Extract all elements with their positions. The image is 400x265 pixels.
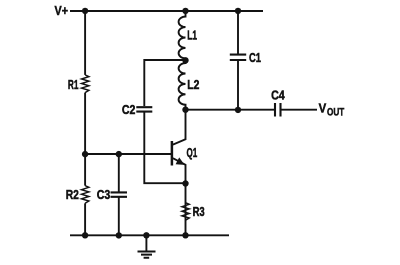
- wire tap (L1/L2 junction to C2): [144, 60, 185, 106]
- wire C4 to VOUT: [281, 109, 318, 111]
- node emitter junction: [182, 180, 188, 186]
- capacitor C3 bottom lead: [118, 198, 120, 236]
- node C1 bottom junction: [235, 107, 241, 113]
- resistor R1: [82, 75, 89, 93]
- capacitor C4 plates: [275, 103, 281, 117]
- node C3 bottom junction: [116, 232, 122, 238]
- capacitor C3 top lead: [118, 154, 120, 192]
- svg-text:C1: C1: [249, 51, 261, 65]
- ground symbol: [138, 252, 156, 258]
- svg-text:Q1: Q1: [187, 146, 198, 160]
- transistor Q1 collector: [173, 110, 186, 145]
- svg-text:R2: R2: [66, 188, 79, 202]
- node L1 top junction: [182, 8, 188, 14]
- svg-text:C2: C2: [122, 103, 135, 117]
- transistor Q1 emitter: [173, 158, 186, 235]
- node C1 top junction: [235, 8, 241, 14]
- node ground junction: [143, 232, 149, 238]
- capacitor C2 plates: [136, 107, 152, 111]
- wire left vertical upper: [84, 11, 86, 75]
- resistor R2: [82, 186, 89, 204]
- wire output node (L2 bottom to C4): [186, 109, 276, 111]
- capacitor C1 bottom lead: [237, 61, 239, 110]
- svg-text:L2: L2: [187, 78, 199, 92]
- inductor L2: [179, 60, 186, 109]
- transistor Q1 emitter arrow: [176, 157, 185, 165]
- capacitor C2 bottom lead: [144, 113, 185, 184]
- capacitor C3 plates: [111, 192, 128, 196]
- svg-text:R3: R3: [193, 205, 205, 219]
- wire left vertical lower: [84, 203, 86, 235]
- capacitor C1 top lead: [237, 11, 239, 54]
- node base/R1/R2 junction: [82, 151, 88, 157]
- resistor R3: [182, 203, 189, 221]
- node R3 bottom junction: [182, 232, 188, 238]
- ground stub: [145, 235, 147, 251]
- wire bottom ground rail: [70, 234, 229, 236]
- inductor L1: [179, 11, 186, 60]
- transistor Q1 base bar: [171, 141, 174, 166]
- node L1/L2 tap junction: [182, 57, 188, 63]
- wire left vertical middle: [84, 93, 86, 186]
- node collector/output junction: [182, 107, 188, 113]
- node V+ junction: [82, 8, 88, 14]
- svg-text:R1: R1: [68, 78, 79, 92]
- svg-text:C4: C4: [271, 88, 285, 102]
- svg-text:OUT: OUT: [327, 106, 344, 118]
- svg-text:V+: V+: [55, 4, 69, 18]
- svg-text:C3: C3: [97, 188, 111, 202]
- node R2 bottom junction: [82, 232, 88, 238]
- wire base (junction to Q1 base): [85, 153, 172, 155]
- node C3 top junction: [116, 151, 122, 157]
- svg-text:L1: L1: [187, 29, 197, 43]
- wire top rail V+: [70, 10, 263, 12]
- capacitor C1 plates: [230, 55, 246, 60]
- svg-text:V: V: [319, 101, 327, 115]
